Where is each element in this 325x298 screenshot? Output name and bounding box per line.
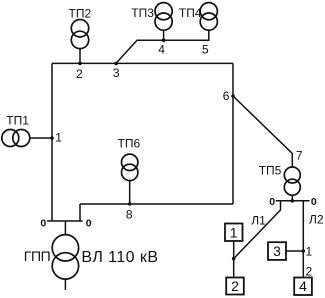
svg-text:8: 8: [126, 208, 133, 222]
svg-text:Л1: Л1: [251, 213, 266, 227]
svg-text:ГПП: ГПП: [24, 248, 51, 264]
svg-text:1: 1: [306, 245, 313, 259]
svg-text:ВЛ 110 кВ: ВЛ 110 кВ: [81, 249, 158, 266]
svg-text:ТП5: ТП5: [259, 163, 282, 177]
svg-text:6: 6: [223, 89, 230, 103]
svg-text:3: 3: [273, 243, 281, 259]
svg-text:ТП1: ТП1: [6, 113, 29, 127]
svg-text:4: 4: [158, 43, 165, 57]
svg-text:ТП4: ТП4: [179, 6, 202, 20]
svg-text:0: 0: [86, 217, 92, 229]
svg-text:0: 0: [40, 217, 46, 229]
svg-text:2: 2: [76, 67, 83, 81]
svg-text:0: 0: [269, 196, 275, 208]
svg-text:5: 5: [202, 43, 209, 57]
svg-text:Л2: Л2: [309, 212, 324, 226]
svg-text:7: 7: [296, 149, 303, 163]
svg-text:ТП6: ТП6: [118, 137, 141, 151]
svg-text:ТП3: ТП3: [131, 6, 154, 20]
svg-text:2: 2: [231, 278, 239, 294]
svg-text:1: 1: [230, 224, 238, 240]
svg-text:4: 4: [299, 278, 307, 294]
svg-text:3: 3: [113, 66, 120, 80]
svg-text:0: 0: [311, 196, 317, 208]
svg-text:ТП2: ТП2: [69, 7, 92, 21]
svg-text:2: 2: [306, 264, 313, 278]
svg-text:1: 1: [55, 131, 62, 145]
